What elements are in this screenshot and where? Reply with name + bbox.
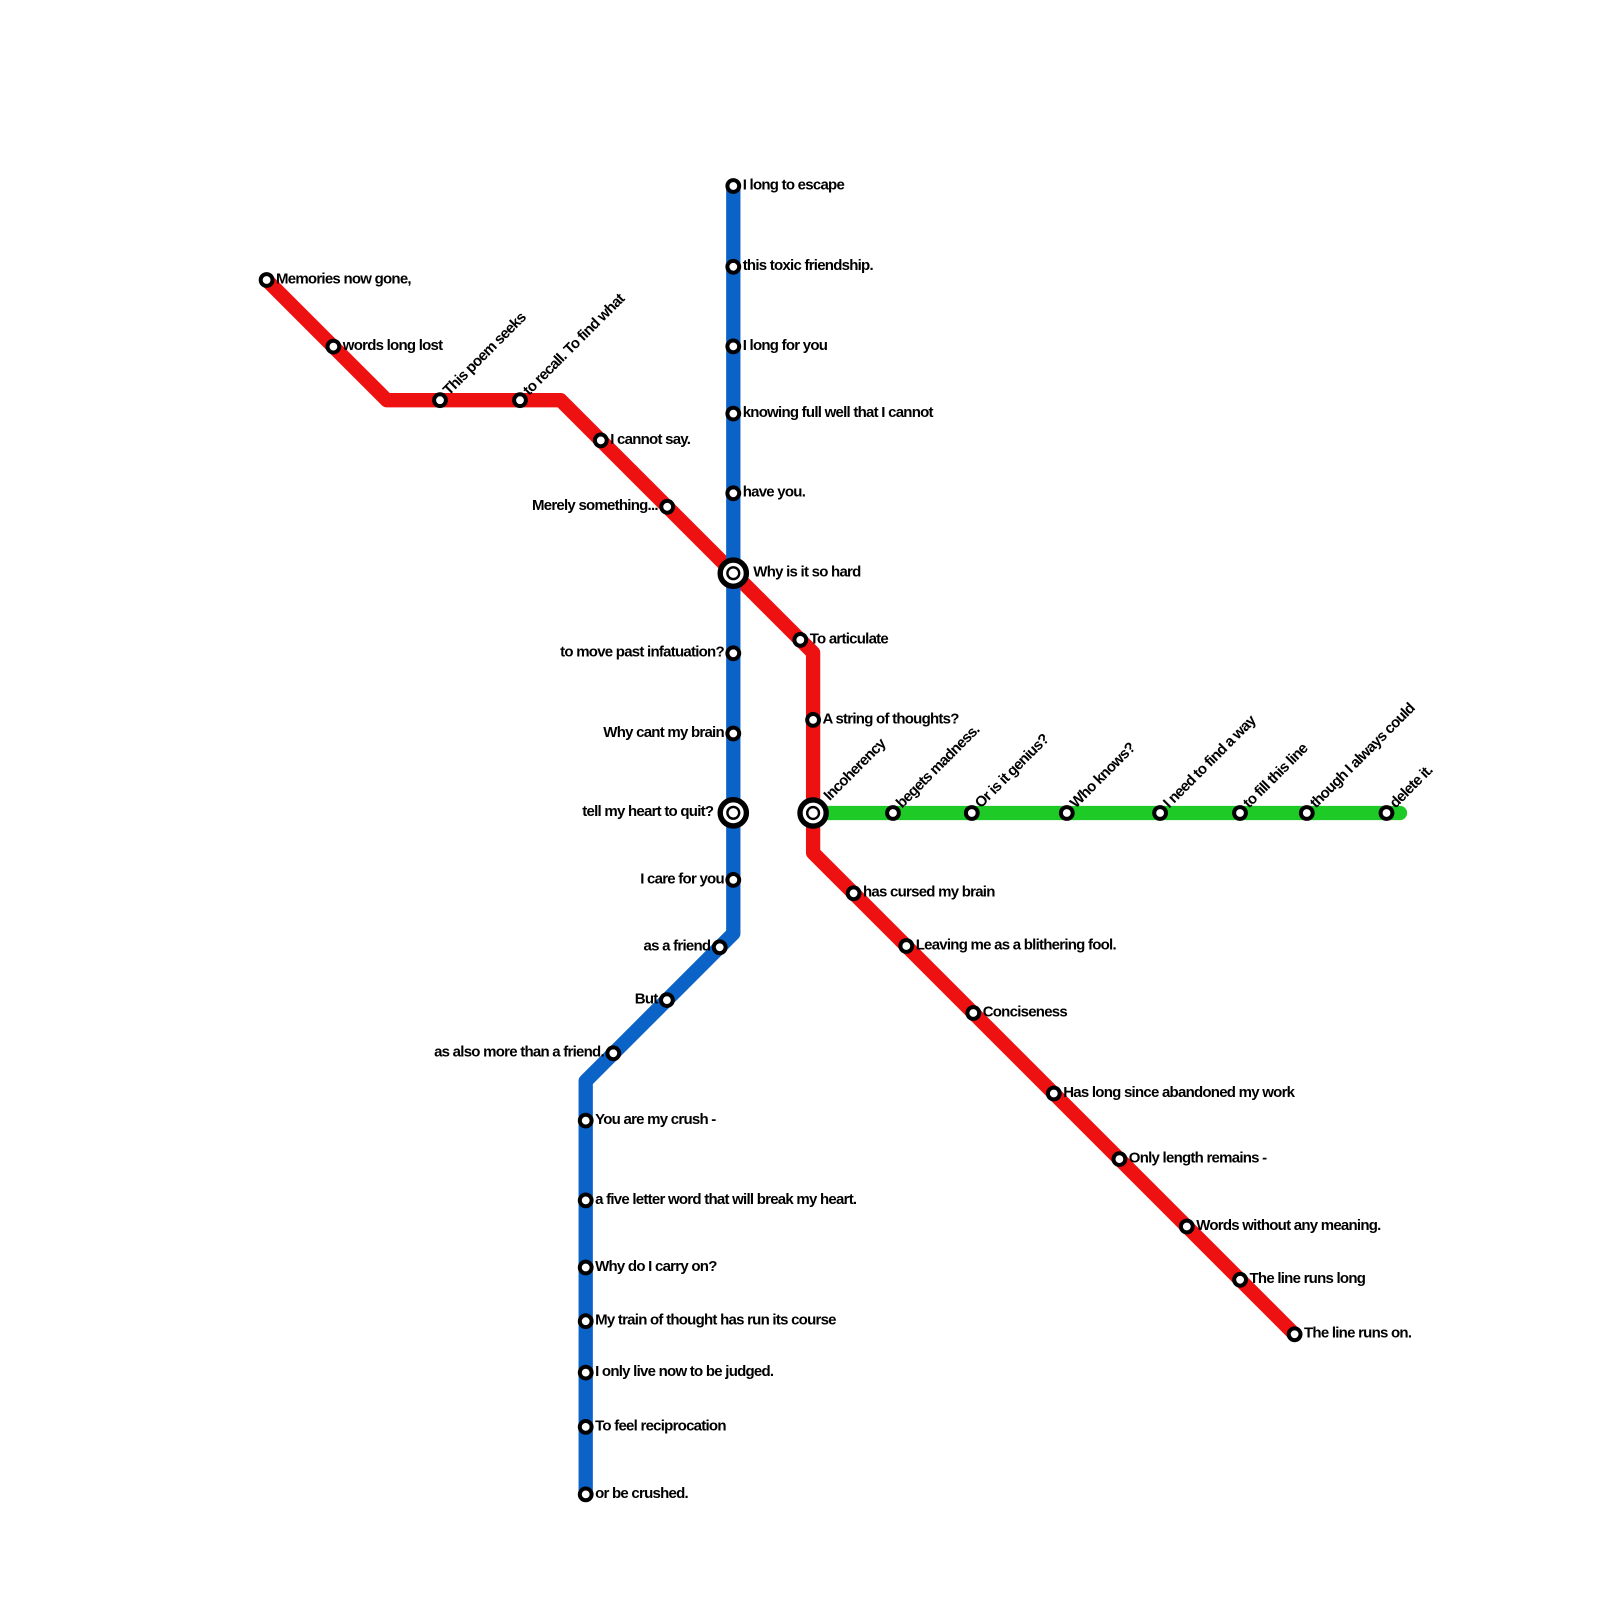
station: tell my heart to quit? — [720, 800, 746, 826]
station: I long to escape — [727, 180, 739, 192]
svg-text:You are my crush -: You are my crush - — [595, 1111, 716, 1128]
station: this toxic friendship. — [727, 261, 739, 273]
svg-text:I only live now to be judged.: I only live now to be judged. — [595, 1363, 774, 1380]
green line (Incoherency line) — [813, 806, 1400, 820]
station: Has long since abandoned my work — [1048, 1088, 1060, 1100]
svg-text:To feel reciprocation: To feel reciprocation — [595, 1417, 726, 1434]
svg-text:has cursed my brain: has cursed my brain — [863, 884, 995, 901]
station: Incoherency — [800, 800, 826, 826]
svg-text:Why do I carry on?: Why do I carry on? — [595, 1258, 717, 1275]
svg-text:a five letter word that will b: a five letter word that will break my he… — [595, 1191, 857, 1208]
svg-text:tell my heart to quit?: tell my heart to quit? — [582, 803, 714, 820]
station: Merely something... — [661, 501, 673, 513]
svg-text:or be crushed.: or be crushed. — [595, 1485, 688, 1502]
station: Or is it genius? — [966, 807, 978, 819]
svg-text:have you.: have you. — [743, 484, 806, 501]
station: words long lost — [328, 341, 340, 353]
station: The line runs long — [1234, 1274, 1246, 1286]
svg-text:Leaving me as a blithering foo: Leaving me as a blithering fool. — [916, 936, 1117, 953]
svg-text:I cannot say.: I cannot say. — [610, 431, 691, 448]
svg-text:To articulate: To articulate — [810, 630, 889, 647]
svg-text:Has long since abandoned my wo: Has long since abandoned my work — [1063, 1084, 1295, 1101]
svg-text:Merely something...: Merely something... — [532, 497, 658, 514]
station: to recall. To find what — [514, 394, 526, 406]
station: My train of thought has run its course — [580, 1315, 592, 1327]
station: a five letter word that will break my heart. — [580, 1195, 592, 1207]
svg-text:Conciseness: Conciseness — [983, 1003, 1068, 1020]
svg-text:The line runs on.: The line runs on. — [1304, 1325, 1412, 1342]
station: as a friend — [714, 941, 726, 953]
station: To feel reciprocation — [580, 1421, 592, 1433]
station: have you. — [727, 487, 739, 499]
svg-text:Why is it so hard: Why is it so hard — [753, 564, 861, 581]
svg-text:My train of thought has run it: My train of thought has run its course — [595, 1312, 836, 1329]
svg-text:Only length remains -: Only length remains - — [1129, 1150, 1267, 1167]
blue line (Longing line) — [586, 186, 734, 1494]
station: I care for you — [727, 874, 739, 886]
svg-text:words long lost: words long lost — [342, 337, 443, 354]
svg-text:as also more than a friend.: as also more than a friend. — [434, 1044, 604, 1061]
red line (Memories line) — [267, 280, 1295, 1334]
svg-text:But: But — [635, 991, 658, 1008]
station: Memories now gone, — [261, 274, 273, 286]
station: Why is it so hard — [720, 560, 746, 586]
station: This poem seeks — [434, 394, 446, 406]
station: Words without any meaning. — [1181, 1221, 1193, 1233]
svg-text:to move past infatuation?: to move past infatuation? — [560, 644, 724, 661]
svg-text:I long for you: I long for you — [743, 337, 828, 354]
station: But — [661, 994, 673, 1006]
station: I only live now to be judged. — [580, 1367, 592, 1379]
station: knowing full well that I cannot — [727, 408, 739, 420]
station: has cursed my brain — [848, 887, 860, 899]
svg-text:this toxic friendship.: this toxic friendship. — [743, 257, 874, 274]
svg-text:A string of thoughts?: A string of thoughts? — [823, 710, 960, 727]
station: I need to find a way — [1154, 807, 1166, 819]
svg-text:as a friend: as a friend — [644, 938, 711, 955]
svg-text:Why cant my brain: Why cant my brain — [603, 724, 724, 741]
station: or be crushed. — [580, 1489, 592, 1501]
station: as also more than a friend. — [607, 1047, 619, 1059]
station: Conciseness — [967, 1007, 979, 1019]
station: To articulate — [794, 634, 806, 646]
svg-text:The line runs long: The line runs long — [1250, 1270, 1366, 1287]
svg-text:Words without any meaning.: Words without any meaning. — [1196, 1217, 1381, 1234]
svg-text:I care for you: I care for you — [640, 870, 724, 887]
svg-text:knowing full well that I canno: knowing full well that I cannot — [743, 404, 934, 421]
svg-text:Memories now gone,: Memories now gone, — [276, 270, 411, 287]
svg-text:I long to escape: I long to escape — [743, 176, 845, 193]
station: though I always could — [1301, 807, 1313, 819]
station: I cannot say. — [595, 435, 607, 447]
station: Who knows? — [1061, 807, 1073, 819]
station: to move past infatuation? — [727, 647, 739, 659]
station: You are my crush - — [580, 1115, 592, 1127]
station: begets madness. — [887, 807, 899, 819]
station: The line runs on. — [1289, 1328, 1301, 1340]
station: A string of thoughts? — [807, 714, 819, 726]
station: Leaving me as a blithering fool. — [900, 940, 912, 952]
station: to fill this line — [1234, 807, 1246, 819]
station: Why do I carry on? — [580, 1262, 592, 1274]
station: Only length remains - — [1114, 1153, 1126, 1165]
station: I long for you — [727, 341, 739, 353]
station: Why cant my brain — [727, 728, 739, 740]
station: delete it. — [1381, 807, 1393, 819]
